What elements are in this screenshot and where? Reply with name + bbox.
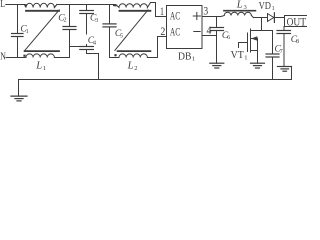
svg-text:OUT: OUT [287,14,307,28]
svg-text:L: L [127,61,134,72]
ground (C8) [278,67,292,72]
substrate-source tie [257,39,259,51]
L1 bottom winding [26,54,54,58]
riser rail to C8 ground [291,67,293,80]
wire bottom rail choke1 to C2 [54,57,69,59]
svg-text:DB: DB [178,51,191,62]
L2 bottom core bar [118,50,151,52]
wire C2 to C4 junction [70,46,81,48]
capacitor C5 [103,5,123,58]
svg-text:AC: AC [170,9,180,23]
svg-text:L: L [236,0,243,11]
inductor L3 [224,0,255,15]
capacitor C3 [80,5,98,47]
L2 bottom winding [119,54,147,58]
wire C5 column to choke2 bottom [110,57,120,59]
wire L3 to diode [251,16,267,18]
svg-text:1: 1 [244,54,247,61]
svg-text:6: 6 [227,35,230,41]
source lead [251,50,258,52]
L3 winding [224,12,251,15]
L2 bottom polarity dot [114,54,116,56]
svg-text:1: 1 [26,29,29,35]
substrate lead with arrow [251,38,258,40]
svg-text:AC: AC [170,25,180,39]
minus sign [194,31,200,33]
svg-text:7: 7 [280,49,283,55]
L1 top winding [25,3,57,7]
OUT box [285,14,308,28]
earth bus rail [19,79,292,81]
wire L2 top to pin1 [151,3,167,17]
source down wire [257,51,259,64]
L1 diagonal [25,10,59,51]
svg-text:VT: VT [231,49,244,61]
wire N to choke1 [6,57,26,59]
svg-text:1: 1 [272,6,275,12]
wire pin3 to L3 [202,16,224,17]
drain/top lead to C7 [251,30,273,32]
drain feed wire [261,18,263,31]
capacitor C8 (output) [277,27,299,67]
transformer L2 (common-mode choke) [114,3,151,73]
capacitor C4 [80,36,96,53]
L1 bottom core bar [25,50,59,52]
L1 top polarity dot [24,4,26,6]
L1 bottom polarity dot [23,55,25,57]
svg-text:8: 8 [296,39,299,45]
L3 core bar [224,10,255,12]
L1 top core bar [26,10,59,12]
svg-text:3: 3 [203,4,208,18]
ground (left earth) [11,80,27,101]
svg-text:3: 3 [244,4,247,11]
gate lead [239,43,248,48]
bridge rectifier DB1 [167,6,203,63]
svg-text:1: 1 [160,4,164,18]
svg-text:1: 1 [192,56,195,63]
wire L2 bottom to pin2 [147,37,166,58]
svg-text:2: 2 [160,24,165,38]
svg-text:4: 4 [93,40,96,46]
svg-text:3: 3 [95,18,98,24]
svg-text:2: 2 [134,65,137,72]
svg-text:2: 2 [64,18,67,24]
svg-text:1: 1 [43,65,46,72]
wire L to choke1 [6,4,25,6]
svg-text:N: N [0,52,6,63]
svg-text:VD: VD [259,1,272,12]
capacitor C7 (snubber) [266,31,283,80]
ground (C6) [210,63,224,68]
capacitor C2 [58,5,76,58]
transistor VT1 (MOSFET) [231,18,273,64]
channel line [250,29,252,52]
wire diode to OUT [275,17,285,19]
diode VD1 [259,1,275,22]
L2 diagonal [115,10,148,51]
wire pin4 stub [202,35,217,37]
wire C4 to earth rail [87,54,99,80]
capacitor C6 [210,17,230,64]
svg-text:5: 5 [120,33,123,39]
gate bar [247,33,249,52]
plus sign [193,12,200,19]
L2 top core bar [120,10,151,12]
ground (VT1 source) [251,63,265,68]
svg-text:L: L [0,0,5,10]
L2 top winding [114,3,151,8]
L2 top polarity dot [114,4,116,6]
svg-text:L: L [35,60,42,71]
transformer L1 (common-mode choke) [23,3,59,72]
capacitor C1 [12,5,29,58]
wire top rail between chokes [54,5,115,8]
